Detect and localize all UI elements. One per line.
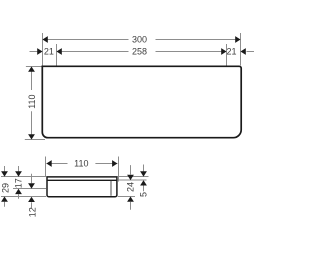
svg-text:24: 24	[125, 182, 135, 192]
svg-text:110: 110	[27, 94, 37, 108]
svg-text:110: 110	[74, 159, 88, 169]
svg-text:17: 17	[14, 178, 24, 188]
svg-text:21: 21	[226, 47, 236, 57]
svg-text:12: 12	[27, 207, 37, 217]
svg-text:300: 300	[132, 35, 147, 45]
svg-text:5: 5	[139, 192, 149, 197]
svg-text:21: 21	[44, 47, 54, 57]
svg-text:258: 258	[132, 47, 147, 57]
svg-text:29: 29	[0, 183, 10, 193]
